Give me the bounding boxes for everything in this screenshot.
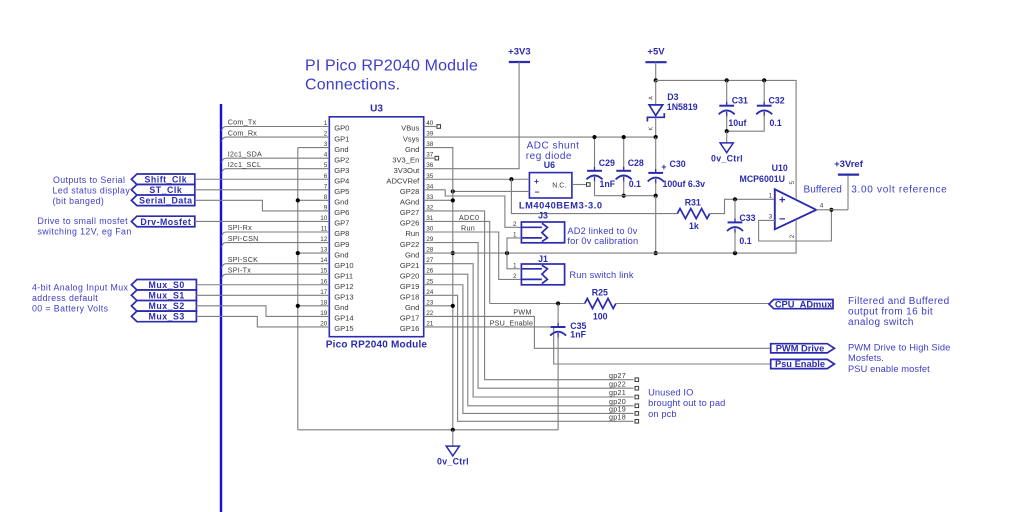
svg-text:3: 3 [769,214,773,221]
svg-text:(bit banged): (bit banged) [53,196,105,206]
ic U3 right pin numbers 40-21 [426,120,434,327]
svg-text:ST_Clk: ST_Clk [149,185,182,195]
svg-text:PSU_Enable: PSU_Enable [490,318,534,327]
node C30 0v junction [654,251,658,255]
flag Mux_S3 [131,311,196,322]
node AGnd junction [451,198,455,202]
wire J1 pin 1 to 0v [507,253,521,269]
svg-text:0.1: 0.1 [739,236,751,246]
svg-text:Mux_S3: Mux_S3 [149,312,185,322]
node gnd pin 13 junction [296,251,300,255]
note analog mux address [32,282,129,313]
flag ST_Clk [131,185,194,196]
svg-text:1nF: 1nF [570,329,586,339]
svg-text:PI Pico RP2040 Module: PI Pico RP2040 Module [305,57,478,74]
svg-text:MCP6001U: MCP6001U [740,174,785,184]
svg-text:GP8: GP8 [334,229,349,238]
wire ADCVRef pin 35 to U6 plus [424,178,530,180]
left ground rail vertical [297,148,299,430]
svg-text:VBus: VBus [401,124,419,133]
wire caps bottom rail [595,195,656,197]
capacitor C30 polarized [648,137,667,196]
svg-text:GP15: GP15 [334,324,353,333]
svg-text:GP27: GP27 [400,208,419,217]
wire +3V3 to pin 36 [424,62,519,169]
svg-text:on pcb: on pcb [648,409,677,419]
svg-text:Run: Run [461,224,475,233]
power +5V [645,61,666,63]
svg-text:Com_Tx: Com_Tx [228,118,257,127]
connector J1 [521,264,564,285]
svg-text:2: 2 [789,234,796,238]
wire Mux_S2 to pin 19 [196,306,329,317]
svg-text:R31: R31 [685,198,701,208]
node op-amp output junction [829,208,833,212]
flag Shift_Clk [131,174,194,185]
svg-text:switching 12V, eg Fan: switching 12V, eg Fan [38,227,132,237]
svg-text:GP21: GP21 [400,261,419,270]
flag Mux_S0 [131,279,196,290]
node +5V junction [654,78,658,82]
wire R25 to CPU_ADmux flag [616,303,769,305]
note drive to small mosfet [38,216,132,237]
svg-text:I2c1_SCL: I2c1_SCL [228,160,262,169]
node C33 top junction [733,197,737,201]
svg-text:1N5819: 1N5819 [667,102,698,112]
svg-text:GP19: GP19 [400,282,419,291]
svg-text:CPU_ADmux: CPU_ADmux [775,299,833,309]
svg-text:Mux_S0: Mux_S0 [149,280,185,290]
wire gnd pin 8 [298,199,330,201]
power +3V3 [509,61,530,63]
svg-text:GP28: GP28 [400,187,419,196]
svg-text:U6: U6 [544,160,555,170]
wire Run pin 30 to J1 pin 2 [424,232,522,279]
svg-text:SPI-Rx: SPI-Rx [228,223,252,232]
svg-text:3.00 volt reference: 3.00 volt reference [851,185,947,196]
svg-text:Serial_Data: Serial_Data [139,196,192,206]
wire GP26 ADC0 pin 31 [424,221,490,303]
wire gp21 pin to pad [424,264,634,397]
flag Serial_Data [131,195,194,206]
svg-text:3V3_En: 3V3_En [392,155,419,164]
svg-text:U10: U10 [772,163,788,173]
svg-text:GP16: GP16 [400,324,419,333]
node gnd pin 8 junction [296,198,300,202]
node C31 bottom junction [725,129,729,133]
svg-text:0.1: 0.1 [770,118,782,128]
wire Psu Enable pin 21 to flag [424,327,771,364]
svg-text:4: 4 [820,203,824,210]
ic U3 body [329,117,423,337]
svg-text:GP2: GP2 [334,155,349,164]
svg-text:100uf 6.3v: 100uf 6.3v [663,179,706,189]
svg-text:2: 2 [513,221,517,228]
svg-text:GP14: GP14 [334,314,353,323]
wire gp18 pin to pad [424,295,634,421]
wire gnd pin 3 [298,147,330,149]
svg-text:GP3: GP3 [334,166,349,175]
svg-text:GP22: GP22 [400,240,419,249]
svg-text:GP11: GP11 [334,271,353,280]
no-connect pin 37 3V3_En [424,157,434,159]
svg-text:GP12: GP12 [334,282,353,291]
wire gnd pin 13 [298,252,330,254]
pad gp20 [635,404,639,408]
svg-text:GP20: GP20 [400,271,419,280]
wire U6 NC pin [572,184,587,186]
wire R31 to op-amp plus input [710,199,775,213]
svg-text:C28: C28 [628,158,644,168]
note outputs to serial [53,175,131,206]
svg-text:Drv-Mosfet: Drv-Mosfet [140,217,191,227]
svg-text:+: + [534,176,539,186]
svg-text:C29: C29 [599,158,615,168]
wire +5V rail to op-amp [656,79,797,81]
node C30 bottom junction [654,194,658,198]
ic U3 left pin numbers 1-20 [320,120,328,327]
capacitor C29 [587,137,603,196]
node ADCVRef junction [509,177,513,181]
wire J3 pin 1 to 0v [507,238,521,253]
wire GP28 pin 34 to J3 pin 2 [424,190,522,228]
node C32 top junction [762,78,766,82]
ic U6 body [529,173,572,198]
svg-text:Psu Enable: Psu Enable [775,359,825,369]
wire SPI-CSN bus to pin 12 [222,243,329,248]
svg-text:GP26: GP26 [400,219,419,228]
svg-text:Filtered and Buffered: Filtered and Buffered [848,296,950,307]
svg-text:R25: R25 [592,288,608,298]
flag Mux_S1 [131,290,196,301]
node C28 top junction [622,135,626,139]
wire Shift_Clk to pin 6 [195,178,329,180]
svg-text:for 0v calibration: for 0v calibration [567,236,638,246]
wire Vsys rail pin 39 to D3 [424,136,656,138]
node U6 minus junction [451,189,455,193]
wire gp20 pin to pad [424,274,634,406]
svg-text:1: 1 [769,193,773,200]
svg-text:GP6: GP6 [334,208,349,217]
svg-text:PWM Drive: PWM Drive [776,344,825,354]
svg-text:Drive to small mosfet: Drive to small mosfet [38,216,129,226]
svg-text:Buffered: Buffered [804,185,842,196]
wire ADCVRef to R31 [511,179,677,213]
diode D3 [647,80,664,137]
right ground rail vertical [424,148,453,430]
svg-text:Run: Run [405,229,419,238]
svg-text:C32: C32 [769,96,785,106]
svg-text:brought out to pad: brought out to pad [648,398,725,408]
wire output to +3Vref [847,175,849,210]
svg-text:Pico RP2040 Module: Pico RP2040 Module [326,340,428,351]
note AD2 linked to 0v [567,226,638,246]
svg-text:Shift_Clk: Shift_Clk [145,175,188,185]
flag Mux_S2 [131,301,196,312]
svg-text:PWM Drive to High Side: PWM Drive to High Side [848,342,950,352]
svg-text:C33: C33 [739,213,755,223]
wire gnd pin 23 [424,305,453,307]
node gnd pin 23 junction [451,304,455,308]
wire Com_Rx bus to pin 2 [222,137,329,142]
svg-text:Gnd: Gnd [405,145,419,154]
wire I2c1_SCL bus to pin 5 [222,169,329,174]
wire C30 bottom to 0v rail [655,196,657,253]
svg-text:Mosfets.: Mosfets. [848,353,884,363]
wire +5V down [655,62,657,80]
ic U3 right pin names [386,124,420,333]
wire SPI-Rx bus to pin 11 [222,232,329,237]
flag Drv-Mosfet [131,216,194,227]
resistor R31 [677,209,709,219]
svg-text:4-bit Analog Input Mux: 4-bit Analog Input Mux [32,282,129,292]
wire Com_Tx bus to pin 1 [222,127,329,132]
svg-text:GP18: GP18 [400,293,419,302]
node C31 top junction [725,78,729,82]
svg-text:Com_Rx: Com_Rx [228,128,258,137]
svg-text:+5V: +5V [647,47,665,58]
svg-text:3V3Out: 3V3Out [394,166,421,175]
wire SPI-Tx bus to pin 15 [222,274,329,279]
svg-text:LM4040BEM3-3.0: LM4040BEM3-3.0 [519,201,603,211]
svg-text:D3: D3 [667,92,678,102]
svg-text:2: 2 [513,273,517,280]
svg-text:ADCVRef: ADCVRef [386,176,420,185]
wire op-amp V- pin 2 [795,220,797,254]
resistor R25 [585,299,616,309]
node gnd pin 18 junction [296,304,300,308]
svg-text:analog switch: analog switch [848,317,914,328]
svg-text:GP17: GP17 [400,314,419,323]
svg-text:Mux_S2: Mux_S2 [149,301,185,311]
node gnd pin 28 junction [451,251,455,255]
wire I2c1_SDA bus to pin 4 [222,158,329,163]
svg-text:J3: J3 [538,210,548,220]
flag Psu Enable [771,359,835,368]
wire Mux_S1 to pin 17 [196,294,329,296]
svg-text:GP4: GP4 [334,176,349,185]
node C28 bottom junction [622,194,626,198]
ground 0v_Ctrl bottom [446,430,459,456]
pad gp21 [635,395,639,399]
svg-text:AD2 linked to 0v: AD2 linked to 0v [567,226,637,236]
wire AGnd pin 33 [424,199,453,201]
svg-text:1k: 1k [689,221,699,231]
svg-text:output from 16 bit: output from 16 bit [848,307,933,318]
wire bottom 0v rail [298,429,558,431]
svg-text:I2c1_SDA: I2c1_SDA [228,149,262,158]
capacitor C35 [550,304,566,430]
svg-text:gp21: gp21 [609,388,626,397]
note unused io [648,388,725,419]
wire gp19 pin to pad [424,285,634,414]
svg-text:Run switch link: Run switch link [569,270,633,280]
svg-text:GP1: GP1 [334,134,349,143]
svg-text:Gnd: Gnd [405,250,419,259]
capacitor C31 [719,80,735,131]
svg-text:Led status display: Led status display [53,186,131,196]
svg-text:+: + [779,195,785,207]
op-amp U10 [775,189,816,229]
no-connect square U6 NC [587,183,591,187]
wire gp22 pin to pad [424,243,634,389]
note ADC shunt reg diode [526,141,580,162]
svg-text:gp22: gp22 [609,379,626,388]
svg-text:+: + [661,162,666,172]
svg-text:GP13: GP13 [334,293,353,302]
svg-text:Gnd: Gnd [334,303,348,312]
svg-text:GP10: GP10 [334,261,353,270]
svg-text:Outputs to Serial: Outputs to Serial [53,175,125,185]
svg-text:J1: J1 [538,254,548,264]
svg-text:address default: address default [32,293,98,303]
svg-text:Connections.: Connections. [305,77,400,94]
bus line [220,104,222,512]
wire Drv-Mosfet to pin 10 [195,220,329,222]
note filtered and buffered [848,296,950,328]
note buffered reference [804,185,948,196]
wire gnd pin 18 [298,305,330,307]
pad gp19 [635,412,639,416]
flag CPU_ADmux [769,299,833,309]
wire op-amp output [816,209,848,211]
pad gp22 [635,386,639,390]
ground 0v_Ctrl under C31 [720,131,733,153]
wire ADC0 to R25 [490,303,585,305]
wire SPI-SCK bus to pin 14 [222,264,329,269]
wire Serial_Data to pin 9 [195,200,329,211]
pad gp27 [635,378,639,382]
svg-text:SPI-SCK: SPI-SCK [228,255,259,264]
wire op-amp V+ pin 5 [795,80,797,199]
svg-text:10uf: 10uf [728,118,746,128]
no-connect pin 40 VBus [424,126,436,128]
svg-text:N.C.: N.C. [552,183,566,190]
svg-text:C31: C31 [732,96,748,106]
capacitor C33 [727,199,743,253]
node C29 top junction [592,135,596,139]
svg-text:GP5: GP5 [334,187,349,196]
wire PWM pin 22 to flag [424,316,771,348]
wire ST_Clk to pin 7 [195,189,329,191]
svg-text:PWM: PWM [513,308,531,317]
svg-text:PSU enable mosfet: PSU enable mosfet [848,364,930,374]
svg-text:Unused IO: Unused IO [648,388,693,398]
svg-text:Gnd: Gnd [405,303,419,312]
svg-text:Gnd: Gnd [334,250,348,259]
svg-text:U3: U3 [370,104,383,115]
svg-text:+3Vref: +3Vref [834,159,864,170]
wire op-amp feedback [759,210,832,241]
svg-text:0.1: 0.1 [629,179,641,189]
wire 0v rail pin 28 [424,252,797,254]
note pwm drive [848,342,950,363]
capacitor C32 [727,80,773,131]
wire Mux_S0 to pin 16 [196,284,329,286]
svg-text:00 = Battery Volts: 00 = Battery Volts [32,304,109,314]
svg-text:Gnd: Gnd [334,198,348,207]
svg-text:C30: C30 [670,159,686,169]
connector J3 [521,222,564,243]
wire gp27 pin to pad [424,211,634,380]
svg-text:Vsys: Vsys [403,134,420,143]
wire U6 minus to ground rail [453,190,530,192]
capacitor C28 [616,137,632,196]
svg-text:−: − [535,187,540,197]
svg-text:0v_Ctrl: 0v_Ctrl [711,153,743,163]
wire Mux_S3 to pin 20 [196,316,329,327]
node bottom gnd junction [451,428,455,432]
svg-text:SPI-Tx: SPI-Tx [228,265,252,274]
svg-text:0v_Ctrl: 0v_Ctrl [437,457,469,467]
node C33 bottom junction [733,251,737,255]
svg-text:ADC shunt: ADC shunt [527,141,580,152]
svg-text:GP0: GP0 [334,124,349,133]
svg-text:−: − [779,213,785,225]
svg-text:Gnd: Gnd [334,145,348,154]
svg-text:GP9: GP9 [334,240,349,249]
node D3 cathode junction [654,135,658,139]
svg-text:Mux_S1: Mux_S1 [149,291,185,301]
svg-text:1nF: 1nF [600,179,616,189]
svg-text:SPI-CSN: SPI-CSN [228,234,259,243]
pad gp18 [635,420,639,424]
svg-text:+3V3: +3V3 [508,47,530,58]
svg-text:AGnd: AGnd [400,198,419,207]
svg-text:100: 100 [593,311,608,321]
svg-text:K: K [649,126,655,130]
power +3Vref [838,174,859,176]
svg-text:A: A [649,96,655,100]
svg-text:5: 5 [789,181,796,185]
svg-text:ADC0: ADC0 [459,213,479,222]
node C35 top junction [556,301,560,305]
flag PWM Drive [771,344,835,353]
node J jumpers 0v junction [505,251,509,255]
svg-text:GP7: GP7 [334,219,349,228]
svg-text:gp18: gp18 [609,413,626,422]
ic U3 left pin names [334,124,353,333]
